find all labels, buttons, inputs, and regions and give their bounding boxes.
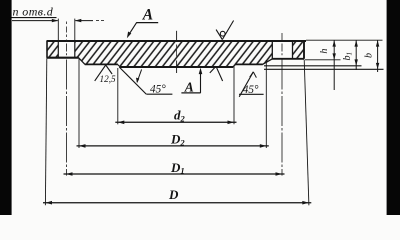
svg-text:D: D [168, 187, 179, 202]
svg-text:45°: 45° [150, 83, 166, 95]
svg-text:45°: 45° [243, 84, 259, 96]
svg-text:12,5: 12,5 [100, 74, 116, 84]
svg-text:А: А [142, 7, 153, 24]
svg-text:b: b [363, 53, 374, 58]
svg-text:n отв.d: n отв.d [13, 5, 54, 19]
svg-text:h: h [319, 49, 330, 54]
svg-text:А: А [184, 79, 194, 94]
